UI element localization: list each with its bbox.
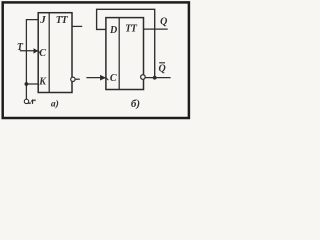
divider of U1 input field [48, 13, 50, 93]
wire: K input branch from logic-1 rail [26, 83, 38, 85]
svg-text:Q: Q [158, 63, 165, 74]
wire: T input to C of flip-flop a [20, 50, 38, 52]
inversion circle on Q-bar output of U2 [141, 75, 146, 80]
wire: Q-bar output of U2 [145, 77, 170, 79]
svg-text:T: T [17, 42, 24, 53]
flip-flop U2 (D trigger, circuit b) [106, 18, 144, 90]
label: constant "1" at terminal [29, 100, 35, 105]
wire: Q output of U2 [144, 28, 168, 30]
svg-text:б): б) [131, 98, 140, 110]
svg-text:Q: Q [160, 16, 167, 27]
wire: feedback loop from Q-bar to D of flip-flop b [97, 9, 155, 77]
svg-text:J: J [39, 14, 46, 26]
svg-text:а): а) [51, 98, 59, 109]
wire: Q-bar output stub of U1 [75, 78, 80, 80]
wire: C input of flip-flop b [86, 77, 105, 79]
inversion circle on Q-bar output of U1 [71, 77, 75, 81]
svg-text:C: C [39, 48, 46, 59]
node: junction of feedback with Q-bar wire [153, 76, 157, 80]
node: junction on logic-1 rail at K branch [25, 82, 29, 86]
svg-text:C: C [110, 73, 117, 84]
svg-text:TT: TT [56, 15, 69, 26]
arrowhead: dynamic C input of flip-flop b [100, 75, 106, 81]
terminal: logic-1 source open circle [24, 99, 28, 103]
wire: Q output stub of U1 [72, 25, 82, 27]
flip-flop U1 (JK trigger, circuit a) [38, 13, 72, 93]
svg-text:TT: TT [125, 23, 138, 34]
divider of U2 input field [118, 18, 120, 90]
svg-text:D: D [109, 25, 117, 36]
svg-text:K: K [38, 77, 47, 88]
wire: J input from logic-1 rail into J of flip-flop a [26, 20, 38, 100]
arrowhead: dynamic C input of flip-flop a [34, 48, 39, 53]
